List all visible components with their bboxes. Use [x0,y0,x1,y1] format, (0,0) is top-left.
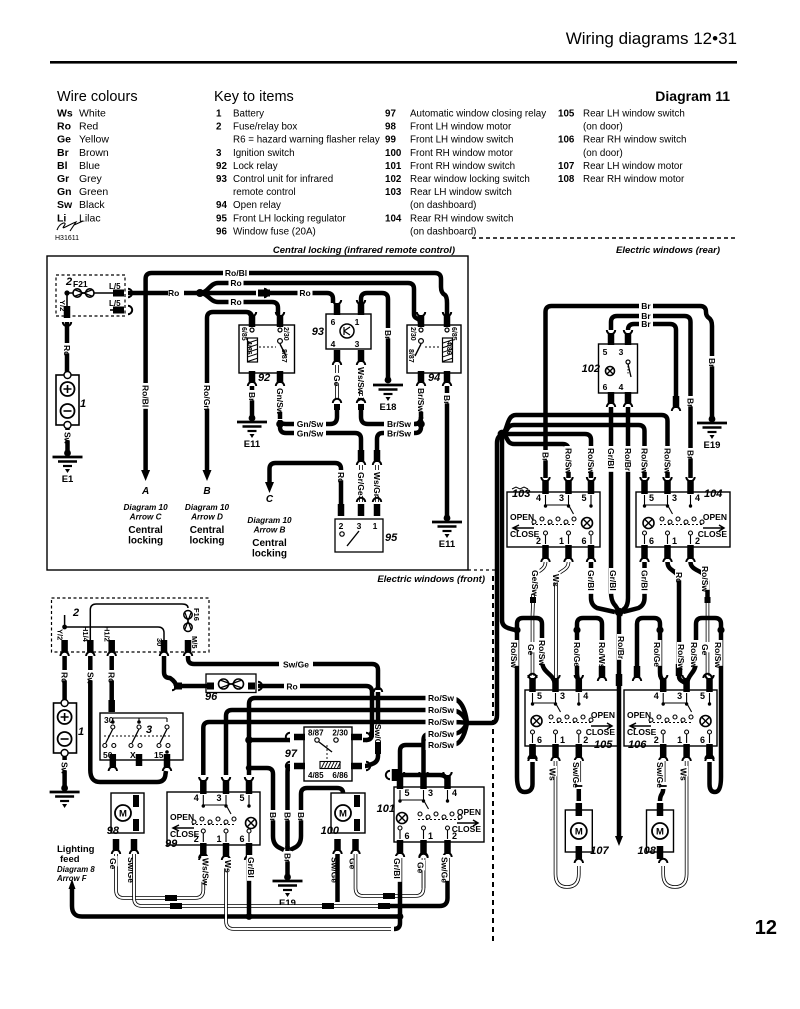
svg-text:Ws: Ws [223,860,233,873]
svg-text:Sw: Sw [60,762,70,775]
svg-text:locking: locking [189,536,224,547]
svg-text:92: 92 [216,161,227,172]
svg-text:CLOSE: CLOSE [586,727,616,737]
svg-text:CLOSE: CLOSE [452,824,482,834]
svg-text:remote control: remote control [233,187,296,198]
svg-text:Diagram 8: Diagram 8 [57,865,95,874]
svg-text:4: 4 [654,691,659,701]
svg-text:H1/2: H1/2 [103,626,112,642]
svg-text:(on dashboard): (on dashboard) [410,226,476,237]
svg-text:Wire colours: Wire colours [57,89,138,105]
svg-text:3: 3 [560,691,565,701]
svg-text:105: 105 [558,109,575,120]
svg-text:92: 92 [258,372,270,384]
svg-text:Rear RH window motor: Rear RH window motor [583,174,685,185]
svg-text:1: 1 [677,735,682,745]
svg-text:4: 4 [452,788,457,798]
svg-text:5: 5 [700,691,705,701]
svg-text:Rear LH window motor: Rear LH window motor [583,161,683,172]
svg-text:Gn/Sw: Gn/Sw [275,388,285,415]
svg-text:Br: Br [707,358,717,368]
svg-text:Ro/Sw: Ro/Sw [428,717,454,727]
svg-text:Green: Green [79,186,108,198]
svg-text:96: 96 [216,226,227,237]
svg-text:CLOSE: CLOSE [698,529,728,539]
svg-text:Ro/Sw: Ro/Sw [700,566,710,592]
svg-text:1: 1 [216,109,222,120]
svg-text:6/85: 6/85 [450,327,457,341]
svg-text:Rear LH window switch: Rear LH window switch [583,109,685,120]
svg-text:Ro: Ro [107,672,117,683]
svg-text:Diagram 10: Diagram 10 [247,516,292,525]
svg-text:95: 95 [385,532,398,544]
svg-text:Ro/Sw: Ro/Sw [676,644,686,670]
svg-text:Ro: Ro [286,682,297,692]
svg-text:Ro: Ro [57,121,71,133]
svg-text:100: 100 [385,148,402,159]
svg-text:Ws/Sw: Ws/Sw [200,858,210,886]
svg-text:Window fuse (20A): Window fuse (20A) [233,226,316,237]
svg-text:Ro/Sw: Ro/Sw [663,448,673,474]
svg-text:M: M [575,827,583,838]
svg-text:Ro/Sw: Ro/Sw [428,705,454,715]
svg-text:6: 6 [404,831,409,841]
svg-text:106: 106 [628,739,647,751]
svg-text:104: 104 [704,488,722,500]
svg-text:Ro: Ro [230,278,241,288]
svg-text:Gn/Sw: Gn/Sw [297,419,324,429]
svg-text:Sw/Ge: Sw/Ge [571,762,581,788]
svg-text:99: 99 [165,838,178,850]
svg-text:6: 6 [239,834,244,844]
svg-text:locking: locking [252,549,287,560]
svg-text:Ro/Gn: Ro/Gn [202,385,212,411]
svg-text:4/86: 4/86 [245,341,252,355]
svg-text:2: 2 [339,521,344,531]
svg-text:Diagram 11: Diagram 11 [655,88,730,104]
svg-text:2: 2 [72,607,79,619]
svg-text:15: 15 [154,750,164,760]
svg-text:1: 1 [560,735,565,745]
svg-text:93: 93 [216,174,227,185]
svg-text:2/30: 2/30 [282,327,289,341]
svg-text:1: 1 [78,726,84,738]
svg-text:6: 6 [537,735,542,745]
svg-text:Ge: Ge [526,644,536,656]
svg-text:Sw: Sw [85,672,95,685]
svg-text:5: 5 [404,788,409,798]
svg-text:3: 3 [559,493,564,503]
svg-text:Br/Sw: Br/Sw [416,388,426,412]
svg-text:100: 100 [321,825,340,837]
svg-text:Ro: Ro [299,288,310,298]
svg-text:R6 = hazard warning flasher re: R6 = hazard warning flasher relay [233,135,380,146]
svg-text:Li: Li [57,212,66,224]
svg-text:Ge: Ge [108,858,118,870]
svg-text:1: 1 [355,317,360,327]
svg-text:108: 108 [638,845,657,857]
svg-text:Ro/Ge: Ro/Ge [572,642,582,667]
svg-text:6/85: 6/85 [240,327,247,341]
svg-text:Y/2: Y/2 [56,629,65,640]
svg-text:4/86: 4/86 [445,341,452,355]
svg-text:E1: E1 [62,474,74,485]
svg-text:1: 1 [216,834,221,844]
svg-text:CLOSE: CLOSE [510,529,540,539]
svg-text:M: M [656,827,664,838]
svg-text:Yellow: Yellow [79,134,109,146]
svg-text:Ro: Ro [336,472,346,483]
svg-text:4: 4 [619,382,624,392]
svg-text:102: 102 [385,174,402,185]
svg-text:6/86: 6/86 [332,771,348,780]
svg-text:E11: E11 [439,539,456,550]
svg-text:Gn: Gn [57,186,72,198]
svg-text:OPEN: OPEN [591,710,615,720]
svg-text:Rear RH window switch: Rear RH window switch [410,213,513,224]
svg-text:Control unit for infrared: Control unit for infrared [233,174,333,185]
svg-text:Br: Br [268,812,278,822]
svg-text:Electric windows (rear): Electric windows (rear) [616,245,720,256]
svg-text:B: B [203,486,210,497]
svg-text:E19: E19 [704,440,721,451]
svg-text:Ro/Sw: Ro/Sw [509,642,519,668]
svg-text:Ignition switch: Ignition switch [233,148,295,159]
svg-text:H1/4: H1/4 [81,626,90,643]
svg-text:Ws/Gr: Ws/Gr [372,472,382,498]
svg-text:93: 93 [312,326,324,338]
svg-text:Ro/Bl: Ro/Bl [141,385,151,407]
svg-text:8/87: 8/87 [308,729,324,738]
svg-text:2/30: 2/30 [332,729,348,738]
svg-text:Brown: Brown [79,147,109,159]
svg-text:locking: locking [128,536,163,547]
svg-text:1: 1 [373,521,378,531]
svg-text:Central: Central [190,525,225,536]
svg-text:Br: Br [283,853,293,863]
svg-text:2/30: 2/30 [409,327,416,341]
svg-text:5: 5 [603,347,608,357]
svg-text:Diagram 10: Diagram 10 [185,503,230,512]
svg-text:106: 106 [558,135,575,146]
svg-text:98: 98 [107,825,120,837]
svg-text:Sw/Ge: Sw/Ge [283,660,309,670]
svg-text:M: M [119,809,127,820]
svg-text:94: 94 [216,200,227,211]
svg-text:Automatic window closing relay: Automatic window closing relay [410,109,546,120]
svg-text:H31611: H31611 [55,235,79,242]
svg-text:103: 103 [385,187,402,198]
svg-text:Br: Br [57,147,69,159]
svg-text:Gr/Ge: Gr/Ge [356,472,366,496]
svg-text:Front LH window motor: Front LH window motor [410,122,512,133]
svg-text:Ro: Ro [230,297,241,307]
svg-text:Ws: Ws [679,768,689,781]
svg-text:Central locking (infrared remo: Central locking (infrared remote control… [273,245,455,256]
svg-text:White: White [79,108,106,120]
svg-text:4/85: 4/85 [308,771,324,780]
svg-text:Front RH window switch: Front RH window switch [410,161,515,172]
svg-text:Gr/Bl: Gr/Bl [246,857,256,878]
svg-text:OPEN: OPEN [703,512,727,522]
svg-text:99: 99 [385,135,396,146]
svg-text:Br: Br [641,319,651,329]
svg-text:5: 5 [537,691,542,701]
svg-text:Gr/Bl: Gr/Bl [608,570,618,591]
svg-text:E11: E11 [244,439,261,450]
svg-text:3: 3 [677,691,682,701]
svg-text:Br: Br [442,395,452,405]
svg-text:C: C [266,494,274,505]
svg-text:12: 12 [755,917,777,939]
svg-text:Ro/Sw: Ro/Sw [586,448,596,474]
svg-text:X: X [130,750,136,760]
svg-text:96: 96 [205,691,218,703]
svg-text:3: 3 [672,493,677,503]
svg-text:Ro/Sw: Ro/Sw [428,693,454,703]
svg-text:3: 3 [355,339,360,349]
svg-text:3: 3 [619,347,624,357]
svg-text:Ws: Ws [551,574,561,587]
svg-text:102: 102 [582,363,600,375]
svg-text:104: 104 [385,213,402,224]
svg-text:Fuse/relay box: Fuse/relay box [233,122,297,133]
svg-text:Br: Br [247,392,257,402]
svg-text:Rear window locking switch: Rear window locking switch [410,174,530,185]
svg-text:Arrow C: Arrow C [129,513,163,522]
svg-text:101: 101 [385,161,402,172]
svg-text:6: 6 [581,536,586,546]
svg-text:Ro: Ro [674,572,684,583]
svg-text:Br: Br [283,812,293,822]
svg-text:Arrow B: Arrow B [253,526,286,535]
svg-text:(on door): (on door) [583,122,623,133]
svg-text:6: 6 [603,382,608,392]
svg-text:Battery: Battery [233,109,264,120]
svg-text:Gr/Bl: Gr/Bl [392,858,402,879]
svg-text:4: 4 [695,493,700,503]
svg-text:3: 3 [216,793,221,803]
svg-text:Br/Sw: Br/Sw [387,419,411,429]
svg-text:Ge: Ge [57,134,71,146]
svg-text:5: 5 [581,493,586,503]
svg-text:3: 3 [357,521,362,531]
svg-text:Ro/Bl: Ro/Bl [225,268,247,278]
svg-text:Ro/Sw: Ro/Sw [564,448,574,474]
svg-text:Br: Br [641,301,651,311]
svg-text:Ro/Ws: Ro/Ws [597,642,607,669]
svg-text:Gr: Gr [57,173,69,185]
svg-text:6: 6 [700,735,705,745]
svg-text:Sw/Ge: Sw/Ge [440,857,450,883]
svg-text:2: 2 [216,122,222,133]
svg-text:(on dashboard): (on dashboard) [410,200,476,211]
svg-text:OPEN: OPEN [170,812,194,822]
svg-text:1: 1 [559,536,564,546]
svg-text:Ro/Sw: Ro/Sw [713,642,723,668]
svg-text:6: 6 [331,317,336,327]
svg-text:3: 3 [146,724,152,736]
svg-text:3: 3 [428,788,433,798]
svg-text:103: 103 [512,488,530,500]
svg-text:E18: E18 [380,402,397,413]
svg-text:Ro/Sw: Ro/Sw [537,640,547,666]
svg-text:Blue: Blue [79,160,100,172]
svg-text:OPEN: OPEN [627,710,651,720]
svg-text:Br: Br [686,450,696,460]
svg-text:101: 101 [377,803,395,815]
svg-text:1: 1 [428,831,433,841]
svg-text:6: 6 [649,536,654,546]
svg-text:Ro/Sw: Ro/Sw [640,448,650,474]
svg-text:4: 4 [536,493,541,503]
svg-text:Grey: Grey [79,173,103,185]
svg-text:Ro/Br: Ro/Br [616,636,626,660]
svg-text:95: 95 [216,213,227,224]
svg-text:5: 5 [649,493,654,503]
svg-text:Ro: Ro [62,345,72,356]
svg-text:Front LH window switch: Front LH window switch [410,135,513,146]
svg-text:94: 94 [428,372,440,384]
svg-text:3: 3 [216,148,222,159]
svg-text:Central: Central [252,538,287,549]
svg-text:Ge: Ge [416,862,426,874]
svg-text:8/87: 8/87 [407,349,414,363]
svg-text:4: 4 [331,339,336,349]
svg-text:Central: Central [128,525,163,536]
svg-text:Rear RH window switch: Rear RH window switch [583,135,686,146]
svg-text:4: 4 [583,691,588,701]
svg-text:Diagram 10: Diagram 10 [124,503,169,512]
svg-text:Br: Br [541,452,551,462]
svg-text:Arrow D: Arrow D [190,513,223,522]
svg-text:Wiring diagrams 12•31: Wiring diagrams 12•31 [566,29,737,48]
svg-text:Ro/Ge: Ro/Ge [652,642,662,667]
svg-text:Sw: Sw [57,199,73,211]
svg-text:1: 1 [672,536,677,546]
svg-text:(on door): (on door) [583,148,623,159]
svg-text:OPEN: OPEN [510,512,534,522]
svg-text:107: 107 [558,161,575,172]
svg-text:107: 107 [590,845,609,857]
svg-text:Ge/Sw: Ge/Sw [530,570,540,596]
svg-text:Arrow F: Arrow F [56,874,87,883]
svg-text:Lock relay: Lock relay [233,161,278,172]
svg-text:Br: Br [686,398,696,408]
svg-text:F16: F16 [192,608,201,621]
svg-text:Gr/Bl: Gr/Bl [640,570,650,591]
svg-text:Bl: Bl [57,160,68,172]
svg-text:Ws: Ws [548,768,558,781]
svg-text:5: 5 [239,793,244,803]
svg-text:Ro/Br: Ro/Br [623,448,633,472]
svg-text:Br/Sw: Br/Sw [387,429,411,439]
svg-text:Gn/Sw: Gn/Sw [297,429,324,439]
svg-text:97: 97 [285,748,298,760]
svg-text:Gr/Bl: Gr/Bl [606,448,616,469]
svg-text:Rear LH window switch: Rear LH window switch [410,187,512,198]
svg-text:A: A [141,486,149,497]
svg-text:Ro/Sw: Ro/Sw [428,729,454,739]
svg-text:Ws/Sw: Ws/Sw [356,367,366,395]
svg-text:Ro: Ro [60,672,70,683]
svg-text:Front LH locking regulator: Front LH locking regulator [233,213,346,224]
svg-text:1: 1 [80,398,86,410]
svg-text:M: M [339,809,347,820]
svg-text:Gr/Bl: Gr/Bl [586,570,596,591]
svg-text:Sw/Ge: Sw/Ge [655,762,665,788]
svg-text:M/5: M/5 [190,636,199,649]
svg-text:Open relay: Open relay [233,200,281,211]
svg-text:108: 108 [558,174,575,185]
svg-text:Black: Black [79,199,105,211]
svg-text:Electric windows (front): Electric windows (front) [377,574,485,585]
svg-text:Key to items: Key to items [214,89,294,105]
svg-text:CLOSE: CLOSE [627,727,657,737]
svg-text:4: 4 [194,793,199,803]
svg-text:98: 98 [385,122,396,133]
svg-text:Sw: Sw [63,432,73,445]
svg-text:Br: Br [296,812,306,822]
svg-text:Br: Br [383,330,393,340]
svg-text:Red: Red [79,121,98,133]
svg-text:Lilac: Lilac [79,212,101,224]
svg-text:Ws: Ws [57,108,73,120]
svg-text:30: 30 [155,638,164,646]
svg-text:97: 97 [385,109,396,120]
svg-text:Front RH window motor: Front RH window motor [410,148,514,159]
svg-text:Ge: Ge [700,644,710,656]
svg-text:feed: feed [60,854,80,865]
svg-text:2: 2 [65,276,72,288]
svg-text:Ro/Sw: Ro/Sw [428,740,454,750]
svg-text:Ro/Sw: Ro/Sw [689,642,699,668]
svg-text:105: 105 [594,739,613,751]
svg-text:Ge: Ge [332,375,342,387]
svg-text:F21: F21 [73,279,88,289]
svg-text:Ro: Ro [168,288,179,298]
